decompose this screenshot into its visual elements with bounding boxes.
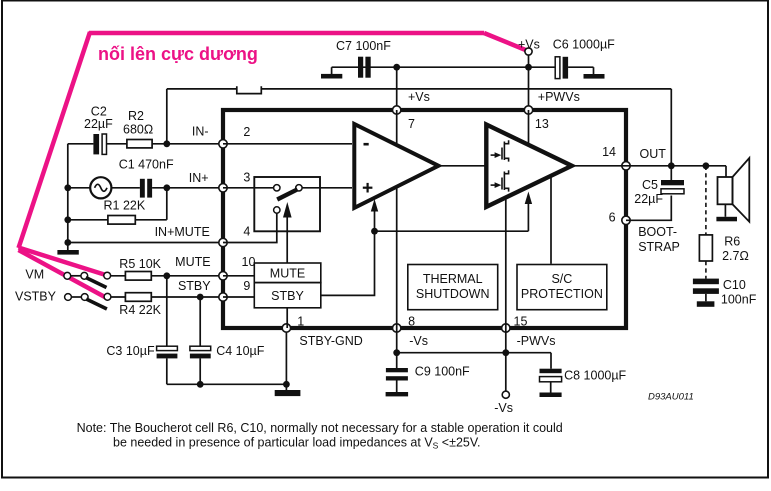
wire pin4 to switch lower contact: [223, 214, 277, 243]
svg-text:R6: R6: [724, 235, 740, 249]
arrow into opamp underside: [371, 199, 378, 231]
wire rail to R1: [68, 219, 108, 221]
junction dot rail IN+: [64, 184, 71, 191]
svg-text:1: 1: [297, 315, 304, 329]
wire down to speaker box: [725, 166, 727, 177]
wire C3 stub to rail: [166, 358, 168, 384]
wire SC box to power underside: [550, 177, 552, 264]
svg-text:C10: C10: [723, 278, 746, 292]
svg-text:R4 22K: R4 22K: [119, 303, 161, 317]
junction dot R4 C4: [197, 294, 204, 301]
svg-text:VSTBY: VSTBY: [15, 290, 57, 304]
wire opamp out to power in: [439, 165, 487, 167]
wire C6 to ground step: [568, 66, 593, 68]
resistor R4: [119, 293, 161, 317]
wire pin10 to MUTE box: [223, 275, 254, 277]
junction dot C4 rail: [197, 381, 204, 388]
wire switch arrow riser from MUTE box: [286, 216, 288, 263]
capacitor C10: [693, 278, 757, 307]
jumper dip on feedback wire: [237, 86, 261, 93]
wire pin9 to STBY box: [223, 296, 254, 298]
wire rail to sine source: [68, 187, 90, 189]
pin 7: [393, 106, 401, 114]
wire pin13 into power stage: [528, 110, 530, 144]
junction dot OUT boucherot: [703, 162, 710, 169]
capacitor C4: [190, 344, 265, 359]
svg-text:C8 1000µF: C8 1000µF: [564, 369, 626, 383]
wire C2 to R2: [107, 143, 127, 145]
wire C5 bottom to pin6: [626, 196, 671, 221]
pin 1: [282, 324, 290, 332]
svg-text:STBY: STBY: [178, 279, 211, 293]
ground STBY-GND: [275, 390, 301, 396]
svg-text:OUT: OUT: [640, 147, 667, 161]
ground C6: [584, 74, 605, 79]
wire power out to pin14: [572, 165, 626, 167]
wire C4 stub to rail: [199, 358, 201, 384]
switch contact upper left: [274, 185, 280, 191]
svg-text:MUTE: MUTE: [270, 266, 305, 280]
wire feedback top right segment: [261, 88, 671, 90]
svg-text:PROTECTION: PROTECTION: [521, 287, 603, 301]
svg-text:be needed in presence of parti: be needed in presence of particular load…: [113, 436, 481, 451]
mosfet lower gate arrow: [495, 182, 502, 188]
capacitor C2: [84, 105, 113, 155]
svg-text:STRAP: STRAP: [638, 240, 680, 254]
switch VM: [64, 272, 111, 287]
ground speaker: [716, 217, 737, 222]
speaker: [718, 158, 750, 222]
svg-text:22µF: 22µF: [634, 192, 663, 206]
pin 13: [524, 106, 532, 114]
wire R1 riser to IN+ node: [166, 188, 168, 220]
svg-text:100nF: 100nF: [721, 293, 757, 307]
pin 14: [622, 162, 630, 170]
wire +Vs terminal down to pin13: [528, 55, 530, 110]
svg-text:D93AU011: D93AU011: [648, 392, 694, 403]
wire VSTBY to R4: [108, 296, 126, 298]
svg-text:nối lên cực dương: nối lên cực dương: [98, 44, 258, 64]
power stage triangle: [486, 125, 572, 207]
svg-text:+Vs: +Vs: [408, 90, 430, 104]
ground input stub: [67, 243, 69, 251]
switch VSTBY: [65, 293, 111, 309]
node +Vs terminal: [518, 38, 540, 56]
wire C8 drop: [550, 353, 552, 369]
svg-text:SHUTDOWN: SHUTDOWN: [416, 287, 490, 301]
wire feedback top left segment: [167, 88, 237, 90]
junction dot pin8 rail: [393, 349, 400, 356]
svg-text:S/C: S/C: [551, 272, 572, 286]
svg-text:680Ω: 680Ω: [123, 123, 153, 137]
resistor R2: [123, 109, 153, 148]
wire speaker ground stub: [724, 204, 726, 217]
ground C7 stub: [331, 67, 333, 74]
switch contact right: [296, 185, 302, 191]
wire control to power arrow: [375, 230, 529, 232]
svg-text:THERMAL: THERMAL: [423, 272, 483, 286]
note text: [77, 421, 563, 451]
wire C7 junction down to pin7: [396, 67, 398, 110]
svg-text:13: 13: [535, 117, 549, 131]
pin 10: [219, 272, 227, 280]
svg-text:8: 8: [408, 315, 415, 329]
junction dot rail bottom: [64, 239, 71, 246]
wire dashed boucherot: [705, 166, 707, 279]
wire C4 riser: [199, 297, 201, 346]
junction dot IN+ node: [163, 184, 170, 191]
wire ground rail: [167, 383, 287, 385]
wire pin1 down: [285, 328, 287, 390]
switch lever: [277, 189, 297, 199]
wire pin8 into opamp underside: [396, 189, 398, 329]
junction dot IN- node: [163, 140, 170, 147]
svg-text:+Vs: +Vs: [518, 38, 540, 52]
svg-text:STBY-GND: STBY-GND: [299, 334, 362, 348]
svg-text:R2: R2: [128, 109, 144, 123]
svg-text:C9 100nF: C9 100nF: [415, 365, 470, 379]
svg-text:MUTE: MUTE: [175, 255, 210, 269]
wire VM to R5: [107, 275, 125, 277]
svg-text:2.7Ω: 2.7Ω: [722, 249, 749, 263]
arrow switch actuator: [283, 202, 292, 218]
resistor R6: [699, 235, 748, 263]
svg-text:9: 9: [243, 279, 250, 293]
junction dot pin1 rail: [283, 381, 290, 388]
junction dot +Vs rail: [525, 64, 532, 71]
svg-text:C1 470nF: C1 470nF: [119, 158, 174, 172]
IC block TDA: [223, 110, 626, 328]
svg-text:C5: C5: [642, 178, 658, 192]
wire pin15 into power underside: [505, 199, 507, 329]
svg-text:6: 6: [609, 211, 616, 225]
wire R4 to pin9: [151, 296, 223, 298]
svg-text:-Vs: -Vs: [409, 334, 428, 348]
wire VSTBY contacts: [72, 296, 85, 298]
switch contact lower: [274, 207, 280, 213]
svg-text:C3 10µF: C3 10µF: [106, 344, 155, 358]
node -Vs terminal: [494, 391, 513, 415]
wire pin15 down to -Vs terminal: [505, 328, 507, 391]
svg-text:VM: VM: [25, 268, 44, 282]
wire switch to opamp plus: [299, 187, 352, 189]
svg-text:22µF: 22µF: [84, 117, 113, 131]
wire C1 to IN+ node: [152, 187, 223, 189]
wire feedback vertical at IN-: [166, 89, 168, 144]
ground C7: [321, 74, 342, 79]
pin 8: [393, 324, 401, 332]
wire R5 to pin10: [151, 275, 223, 277]
svg-text:C6 1000µF: C6 1000µF: [553, 38, 615, 52]
resistor R5: [119, 257, 161, 280]
opamp U1: [354, 124, 438, 208]
svg-text:15: 15: [514, 315, 528, 329]
junction dot control node: [371, 228, 378, 235]
svg-text:Note: The Boucherot cell R6, C: Note: The Boucherot cell R6, C10, normal…: [77, 421, 563, 435]
wire feedback vertical to OUT: [670, 89, 672, 166]
block THERMAL SHUTDOWN: [408, 265, 498, 310]
svg-text:IN-: IN-: [192, 125, 209, 139]
wire VM contacts: [71, 275, 84, 277]
capacitor C8: [540, 369, 627, 398]
junction dot pin15 rail: [502, 349, 509, 356]
wire -Vs rail: [397, 352, 551, 354]
svg-text:BOOT-: BOOT-: [638, 225, 677, 239]
wire pin14 to speaker: [626, 165, 726, 167]
wire C5 top: [670, 166, 672, 180]
svg-text:IN+: IN+: [189, 171, 209, 185]
pin 6: [622, 216, 630, 224]
junction dot OUT C5: [668, 162, 675, 169]
resistor R1: [104, 199, 146, 225]
svg-text:14: 14: [602, 145, 616, 159]
mosfet lower: [491, 170, 509, 191]
pin 3: [219, 184, 227, 192]
pin 9: [219, 293, 227, 301]
svg-text:STBY: STBY: [271, 289, 304, 303]
annotation pink polyline "noi len cuc duong": [19, 32, 529, 299]
capacitor C6: [553, 38, 615, 79]
ground input: [57, 250, 78, 255]
capacitor C3: [106, 344, 177, 359]
svg-text:2: 2: [243, 125, 250, 139]
pin 4: [219, 238, 227, 246]
svg-text:R1 22K: R1 22K: [104, 199, 146, 213]
svg-text:10: 10: [242, 255, 256, 269]
svg-text:+PWVs: +PWVs: [538, 90, 580, 104]
mosfet upper gate arrow: [495, 152, 502, 158]
wire C3 riser: [166, 276, 168, 346]
junction dot rail R1: [64, 216, 71, 223]
block MUTE: [254, 263, 320, 283]
wire top rail: [332, 66, 556, 68]
svg-text:7: 7: [408, 117, 415, 131]
wire pin3 to switch contact: [223, 187, 277, 189]
svg-text:-PWVs: -PWVs: [517, 334, 556, 348]
wire IN+MUTE rail: [68, 242, 223, 244]
junction dot C7 rail: [393, 64, 400, 71]
capacitor C7: [336, 39, 391, 78]
wire left rail vertical: [67, 144, 69, 243]
switch box mute: [254, 177, 320, 231]
svg-text:IN+MUTE: IN+MUTE: [155, 225, 210, 239]
wire pin8 down to C9: [396, 328, 398, 368]
wire R1 to riser: [135, 219, 167, 221]
source sine generator: [90, 177, 111, 198]
capacitor C5: [634, 178, 684, 206]
wire pin1 riser inside: [286, 308, 288, 328]
mosfet upper: [491, 140, 509, 161]
wire pin2 to opamp: [223, 143, 352, 145]
svg-text:-Vs: -Vs: [494, 401, 513, 415]
wire sine to C1: [111, 187, 139, 189]
block STBY: [254, 283, 320, 308]
capacitor C9: [386, 365, 470, 397]
block S/C PROTECTION: [517, 265, 607, 310]
junction dot R5 C3: [163, 272, 170, 279]
svg-text:4: 4: [243, 225, 250, 239]
wire R2 to IN- node: [152, 143, 223, 145]
wire rail to C2: [68, 143, 94, 145]
wire pin7 into opamp: [396, 110, 398, 146]
svg-text:C4 10µF: C4 10µF: [216, 344, 265, 358]
arrow into power underside: [525, 192, 532, 232]
svg-text:3: 3: [243, 171, 250, 185]
pin 15: [502, 324, 510, 332]
svg-text:R5 10K: R5 10K: [119, 257, 161, 271]
capacitor C1: [119, 158, 174, 198]
wire STBY box to control riser: [321, 231, 375, 295]
svg-text:C7 100nF: C7 100nF: [336, 39, 391, 53]
pin 2: [219, 140, 227, 148]
